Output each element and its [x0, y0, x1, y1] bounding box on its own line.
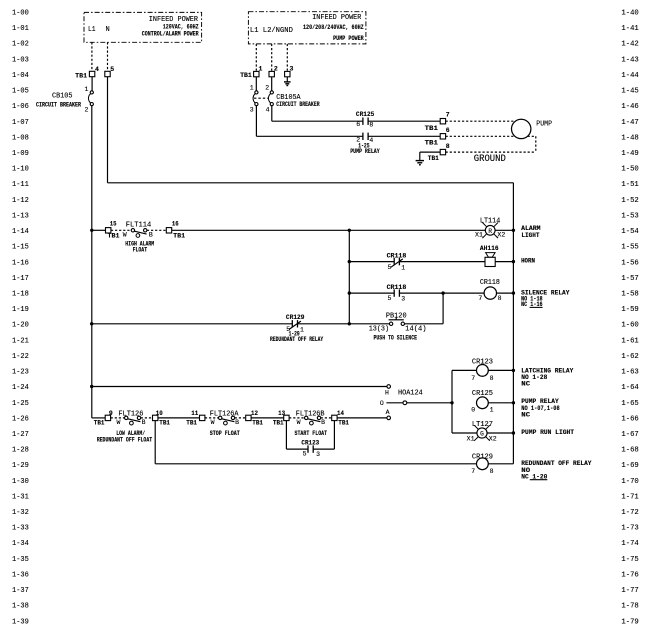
svg-text:1-18: 1-18: [12, 291, 29, 299]
svg-text:1-45: 1-45: [621, 88, 638, 96]
svg-text:4: 4: [266, 106, 270, 113]
svg-text:1-74: 1-74: [621, 540, 639, 548]
svg-text:TB1: TB1: [159, 420, 170, 427]
svg-text:1-64: 1-64: [621, 384, 639, 392]
svg-text:1-22: 1-22: [12, 353, 29, 361]
svg-text:1-48: 1-48: [621, 134, 638, 142]
svg-text:1-19: 1-19: [12, 306, 29, 314]
svg-text:1-50: 1-50: [621, 166, 638, 174]
wire rung 1-26 TB1-10 to TB1-11: [158, 417, 200, 419]
svg-text:1-55: 1-55: [621, 244, 638, 252]
relay coil CR125 pump relay: [471, 390, 513, 413]
wire dashed TB1-8 ground run: [446, 151, 536, 153]
svg-text:1-47: 1-47: [621, 119, 638, 127]
svg-text:TB1: TB1: [252, 420, 263, 427]
svg-text:INFEED POWER: INFEED POWER: [312, 14, 362, 22]
svg-text:TB1: TB1: [186, 420, 197, 427]
wire left power rail from CB105: [91, 106, 93, 418]
svg-text:CIRCUIT BREAKER: CIRCUIT BREAKER: [36, 101, 81, 108]
wire rung 1-20 left segment: [90, 322, 292, 325]
svg-text:CR118: CR118: [480, 279, 500, 287]
svg-text:AH116: AH116: [480, 245, 499, 252]
node junction mid vertical at 1-20: [348, 322, 351, 325]
svg-text:1-29: 1-29: [12, 462, 29, 470]
svg-text:3: 3: [290, 66, 294, 73]
svg-text:1-33: 1-33: [12, 525, 29, 533]
svg-text:1-34: 1-34: [12, 540, 29, 548]
svg-text:1-08: 1-08: [12, 134, 29, 142]
svg-text:CR129: CR129: [286, 314, 305, 321]
svg-text:1-42: 1-42: [621, 41, 638, 49]
svg-text:1-09: 1-09: [12, 150, 29, 158]
svg-text:PUMP POWER: PUMP POWER: [333, 35, 364, 42]
svg-text:LT114: LT114: [480, 218, 500, 226]
svg-text:1-11: 1-11: [12, 181, 29, 189]
svg-text:TB1: TB1: [425, 139, 439, 146]
contact CR123 5-3 latch: [301, 439, 320, 457]
wire dashed L2 drop from box 2: [271, 44, 273, 72]
svg-text:1-72: 1-72: [621, 509, 638, 517]
node label REDUNDANT OFF RELAY: [521, 460, 591, 480]
svg-text:1: 1: [300, 326, 304, 333]
svg-text:1-06: 1-06: [12, 103, 29, 111]
svg-text:1-27: 1-27: [12, 431, 29, 439]
svg-text:START FLOAT: START FLOAT: [295, 430, 328, 437]
switch FLT126 LOW ALARM/REDUNDANT OFF FLOAT: [97, 410, 153, 443]
ground symbol at TB1-3: [284, 77, 291, 86]
svg-text:1-46: 1-46: [621, 103, 638, 111]
circuit breaker CB105A: [250, 77, 320, 114]
svg-text:1-02: 1-02: [12, 41, 29, 49]
svg-text:X1: X1: [475, 231, 483, 238]
svg-text:1-17: 1-17: [12, 275, 29, 283]
svg-text:1-57: 1-57: [621, 275, 638, 283]
contact CR129 5-1 NC redundant off: [270, 314, 349, 343]
svg-text:6: 6: [356, 121, 360, 128]
svg-text:X2: X2: [489, 436, 497, 443]
switch HOA124 selector H-O-A: [380, 385, 452, 420]
svg-text:5: 5: [303, 450, 307, 457]
svg-text:1-40: 1-40: [621, 10, 638, 18]
svg-text:1-77: 1-77: [621, 587, 638, 595]
svg-text:STOP FLOAT: STOP FLOAT: [210, 430, 240, 437]
wire dashed TB1-6 to pump loop: [446, 136, 536, 152]
node line-number column right (1-40..1-79): [621, 10, 639, 627]
svg-text:1-56: 1-56: [621, 259, 638, 267]
contact CR125 6-8: [356, 111, 440, 128]
svg-text:1-78: 1-78: [621, 603, 638, 611]
svg-text:CB105: CB105: [52, 93, 73, 101]
svg-text:FLOAT: FLOAT: [133, 247, 148, 254]
node junction PB tie at 1-18: [441, 291, 444, 294]
svg-text:NC: NC: [521, 412, 530, 419]
node junction left rail at 1-14: [90, 229, 93, 232]
svg-text:5: 5: [388, 295, 392, 302]
svg-text:TB1: TB1: [75, 73, 87, 80]
svg-text:1-37: 1-37: [12, 587, 29, 595]
wire rung 1-20 to pushbutton: [349, 323, 389, 325]
svg-text:1-00: 1-00: [12, 10, 29, 18]
svg-text:L1: L1: [88, 26, 96, 34]
terminal TB1-4: [75, 66, 99, 80]
svg-text:N: N: [106, 26, 110, 34]
svg-text:1-32: 1-32: [12, 509, 29, 517]
svg-text:L1 L2/NGND: L1 L2/NGND: [250, 27, 293, 35]
svg-text:8: 8: [498, 295, 502, 302]
svg-text:CR125: CR125: [356, 111, 375, 118]
terminal TB1-14: [332, 410, 349, 427]
contact CR118 5-3 NO: [387, 284, 485, 302]
svg-text:HORN: HORN: [521, 258, 535, 265]
terminal TB1-11: [186, 410, 205, 427]
svg-text:1-01: 1-01: [12, 25, 29, 33]
svg-text:W: W: [117, 419, 121, 426]
node junction right rail at 1-14: [512, 229, 515, 232]
relay coil CR129 redundant off relay: [471, 454, 513, 476]
node label SILENCE RELAY: [521, 289, 569, 308]
svg-text:REDUNDANT OFF RELAY: REDUNDANT OFF RELAY: [270, 336, 323, 343]
svg-text:1-60: 1-60: [621, 322, 638, 330]
node line-number column left (1-00..1-39): [12, 10, 29, 627]
svg-text:CR123: CR123: [301, 439, 319, 446]
wire dashed N drop from box 1: [107, 42, 109, 71]
node junction right rail at 1-23: [512, 369, 515, 372]
svg-text:1-68: 1-68: [621, 447, 638, 455]
svg-text:1-30: 1-30: [12, 478, 29, 486]
svg-text:8: 8: [369, 121, 373, 128]
svg-text:2: 2: [85, 106, 89, 113]
node junction right rail at 1-18: [512, 291, 515, 294]
svg-text:1-62: 1-62: [621, 353, 638, 361]
svg-text:TB1: TB1: [108, 233, 120, 240]
svg-text:1-12: 1-12: [12, 197, 29, 205]
svg-text:W: W: [211, 419, 215, 426]
svg-text:1-59: 1-59: [621, 306, 638, 314]
node label LATCHING RELAY: [521, 367, 573, 387]
svg-text:1-69: 1-69: [621, 462, 638, 470]
wire rung 1-26 TB1-14 to HOA A: [337, 417, 387, 419]
svg-text:FLT114: FLT114: [126, 221, 152, 229]
svg-text:1-14: 1-14: [12, 228, 29, 236]
svg-text:1-28: 1-28: [12, 447, 29, 455]
svg-text:H: H: [385, 389, 389, 396]
svg-text:A: A: [386, 409, 390, 416]
svg-text:G: G: [480, 431, 484, 438]
svg-text:1-23: 1-23: [12, 369, 29, 377]
terminal TB1-10: [153, 410, 171, 427]
svg-text:1-13: 1-13: [12, 212, 29, 220]
svg-text:3: 3: [316, 451, 320, 458]
svg-text:B: B: [235, 419, 239, 426]
svg-text:7: 7: [471, 375, 475, 382]
circuit breaker CB105: [36, 77, 93, 114]
node junction mid vertical at 1-14: [348, 229, 351, 232]
svg-text:CR118: CR118: [387, 284, 407, 291]
svg-text:1: 1: [401, 264, 405, 271]
switch FLT126B START FLOAT: [289, 410, 332, 437]
svg-text:4: 4: [369, 137, 373, 144]
lamp LT114 alarm light: [475, 218, 513, 239]
infeed power box 1 CONTROL/ALARM POWER: [84, 12, 202, 42]
svg-text:1-31: 1-31: [12, 493, 29, 501]
wire CB105A pole1 to rung 1-08: [256, 106, 363, 137]
svg-text:TB1: TB1: [94, 420, 105, 427]
svg-text:TB1: TB1: [425, 125, 439, 132]
terminal TB1-1: [240, 66, 262, 79]
contact CR118 5-1 NC: [387, 253, 485, 272]
wire rung 1-26 left segment: [92, 417, 106, 419]
svg-text:HOA124: HOA124: [398, 389, 423, 397]
svg-text:1-16: 1-16: [12, 259, 29, 267]
wire dashed NGND drop from box 2: [286, 44, 288, 72]
svg-text:TB1: TB1: [240, 72, 252, 79]
svg-text:1-35: 1-35: [12, 556, 29, 564]
wire rung 1-24 hand: [90, 385, 387, 388]
svg-text:8: 8: [490, 375, 494, 382]
svg-text:1-73: 1-73: [621, 525, 638, 533]
motor PUMP: [512, 119, 553, 138]
svg-text:7: 7: [446, 112, 450, 119]
svg-text:CIRCUIT BREAKER: CIRCUIT BREAKER: [276, 101, 319, 108]
svg-text:NC: NC: [521, 381, 530, 388]
svg-text:ALARM: ALARM: [521, 225, 540, 232]
wire dashed L1 drop from box 2: [255, 44, 257, 72]
node label ALARM LIGHT: [521, 225, 540, 239]
terminal TB1-3: [285, 66, 294, 77]
svg-text:7: 7: [471, 468, 475, 475]
svg-text:TB1: TB1: [273, 420, 284, 427]
svg-text:1-51: 1-51: [621, 181, 639, 189]
svg-text:1-75: 1-75: [621, 556, 638, 564]
horn AH116: [480, 245, 514, 266]
terminal TB1-15: [106, 221, 120, 240]
svg-text:GROUND: GROUND: [474, 154, 506, 165]
svg-text:B: B: [149, 231, 153, 238]
terminal TB1-5: [105, 66, 114, 77]
terminal TB1-9: [94, 410, 113, 427]
svg-text:1-10: 1-10: [12, 166, 29, 174]
svg-text:8: 8: [490, 468, 494, 475]
svg-text:PUMP: PUMP: [536, 121, 552, 129]
terminal TB1-6: [425, 127, 450, 147]
svg-text:TB1: TB1: [338, 420, 349, 427]
terminal TB1-16: [166, 221, 185, 240]
terminal TB1-7: [425, 112, 450, 132]
node junction right rail at 1-27: [512, 431, 515, 434]
terminal TB1-13: [273, 410, 289, 427]
svg-text:1-15: 1-15: [12, 244, 29, 252]
svg-text:REDUNDANT OFF FLOAT: REDUNDANT OFF FLOAT: [97, 436, 153, 443]
svg-text:1-67: 1-67: [621, 431, 638, 439]
lamp LT127 pump run light: [452, 421, 513, 443]
svg-text:5: 5: [110, 66, 114, 73]
svg-text:PUSH TO SILENCE: PUSH TO SILENCE: [374, 335, 418, 342]
svg-text:1-49: 1-49: [621, 150, 638, 158]
wire rung 1-18 from branch: [348, 291, 395, 294]
svg-text:1-25: 1-25: [12, 400, 29, 408]
svg-text:1: 1: [85, 86, 89, 93]
svg-text:1-24: 1-24: [12, 384, 29, 392]
svg-text:O: O: [380, 400, 384, 407]
svg-text:1-39: 1-39: [12, 618, 29, 626]
svg-text:CR118: CR118: [387, 253, 407, 260]
svg-text:13: 13: [278, 410, 285, 417]
svg-text:CONTROL/ALARM POWER: CONTROL/ALARM POWER: [142, 31, 199, 38]
wire redundant off feed from TB1-10: [155, 421, 476, 464]
svg-text:0: 0: [471, 406, 475, 413]
svg-text:14(4): 14(4): [405, 326, 426, 334]
wire latch branch around start float: [286, 421, 334, 450]
wire rung 1-14 to alarm light: [172, 229, 486, 231]
svg-text:X1: X1: [467, 436, 475, 443]
node GROUND label: [474, 154, 506, 165]
svg-text:4: 4: [95, 66, 99, 73]
svg-text:1-43: 1-43: [621, 56, 638, 64]
relay coil CR118 silence relay: [478, 279, 513, 302]
svg-text:1-65: 1-65: [621, 400, 638, 408]
svg-text:1-20: 1-20: [12, 322, 29, 330]
node label PUMP RUN LIGHT: [521, 429, 574, 436]
svg-text:2: 2: [265, 85, 269, 92]
wire dashed TB1-7 to pump: [446, 120, 514, 122]
svg-text:1-38: 1-38: [12, 603, 29, 611]
svg-text:10: 10: [156, 410, 163, 417]
terminal TB1-2: [269, 66, 278, 77]
svg-text:1-70: 1-70: [621, 478, 638, 486]
wire PB tie vertical up to 1-18: [442, 293, 444, 324]
svg-text:B: B: [321, 419, 325, 426]
svg-text:7: 7: [478, 295, 482, 302]
wire rung 1-16 from branch: [348, 260, 395, 263]
svg-text:1-76: 1-76: [621, 572, 638, 580]
svg-text:1-41: 1-41: [621, 25, 639, 33]
svg-text:1-79: 1-79: [621, 618, 638, 626]
switch FLT126A STOP FLOAT: [205, 410, 246, 437]
svg-text:1-66: 1-66: [621, 415, 638, 423]
svg-text:1: 1: [250, 85, 254, 92]
svg-text:1-71: 1-71: [621, 493, 639, 501]
terminal TB1-12: [246, 410, 263, 427]
wire rung 1-14 left segment: [92, 229, 106, 231]
svg-text:1-44: 1-44: [621, 72, 639, 80]
svg-text:B: B: [142, 419, 146, 426]
wire N from TB1-5 down and across to right rail: [108, 77, 514, 183]
ground symbol at TB1-8: [416, 152, 441, 165]
svg-text:1: 1: [490, 406, 494, 413]
svg-text:TB1: TB1: [173, 233, 185, 240]
svg-text:1: 1: [259, 66, 263, 73]
svg-text:14: 14: [337, 410, 344, 417]
svg-text:5: 5: [388, 264, 392, 271]
svg-text:1-04: 1-04: [12, 72, 29, 80]
svg-text:11: 11: [191, 410, 198, 417]
pushbutton PB120 push to silence: [369, 313, 443, 342]
svg-text:1-53: 1-53: [621, 212, 638, 220]
svg-text:1-05: 1-05: [12, 88, 29, 96]
svg-text:6: 6: [446, 127, 450, 134]
svg-text:1-03: 1-03: [12, 56, 29, 64]
node junction right rail at 1-25: [512, 401, 515, 404]
svg-text:1-36: 1-36: [12, 572, 29, 580]
svg-text:REDUNDANT OFF RELAY: REDUNDANT OFF RELAY: [521, 460, 591, 467]
node junction right rail at 1-16: [512, 260, 515, 263]
svg-text:X2: X2: [497, 231, 505, 238]
svg-text:LIGHT: LIGHT: [521, 232, 539, 239]
svg-text:PUMP RELAY: PUMP RELAY: [350, 148, 380, 155]
svg-text:2: 2: [274, 66, 278, 73]
wire rung 1-26 TB1-12 to TB1-13: [251, 417, 284, 419]
svg-text:15: 15: [110, 221, 117, 228]
node label PUMP RELAY: [521, 398, 559, 418]
switch FLT114 HIGH ALARM FLOAT: [111, 221, 166, 253]
svg-text:16: 16: [172, 221, 179, 228]
wire mid branch vertical 1-14 to 1-20: [348, 230, 350, 323]
node label HORN: [521, 258, 535, 265]
svg-text:1-54: 1-54: [621, 228, 639, 236]
svg-text:3: 3: [401, 295, 405, 302]
svg-text:1-61: 1-61: [621, 337, 639, 345]
wire CB105A pole2 to rung 1-07: [272, 106, 363, 122]
svg-text:9: 9: [109, 410, 113, 417]
svg-text:1-52: 1-52: [621, 197, 638, 205]
svg-text:TB1: TB1: [428, 155, 439, 162]
svg-text:3: 3: [250, 106, 254, 113]
wire right power rail: [512, 183, 514, 464]
svg-text:12: 12: [251, 410, 258, 417]
relay coil CR123 latching relay: [452, 359, 513, 382]
svg-text:1-26: 1-26: [12, 415, 29, 423]
svg-text:R: R: [488, 228, 492, 235]
contact CR125 2-4: [350, 133, 440, 155]
svg-text:1-21: 1-21: [12, 337, 29, 345]
wire branch rail for coil group: [450, 370, 453, 433]
svg-text:PUMP RUN LIGHT: PUMP RUN LIGHT: [521, 429, 574, 436]
infeed power box 2 PUMP POWER: [248, 12, 366, 44]
svg-text:1-58: 1-58: [621, 291, 638, 299]
svg-text:120VAC, 60HZ: 120VAC, 60HZ: [163, 24, 199, 31]
wire dashed L1 drop from box 1: [91, 42, 93, 71]
svg-text:1-63: 1-63: [621, 369, 638, 377]
svg-text:120/208/240VAC, 60HZ: 120/208/240VAC, 60HZ: [303, 24, 364, 31]
terminal TB1-8: [428, 143, 450, 162]
svg-text:1-07: 1-07: [12, 119, 29, 127]
svg-text:W: W: [123, 231, 127, 238]
svg-text:13(3): 13(3): [369, 325, 389, 333]
svg-text:W: W: [297, 419, 301, 426]
svg-text:8: 8: [446, 143, 450, 150]
